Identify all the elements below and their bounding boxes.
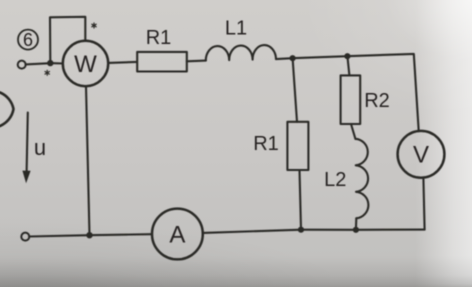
wire W to R1 — [108, 62, 137, 63]
wire node to wattmeter — [53, 62, 63, 64]
svg-text:L2: L2 — [324, 169, 346, 191]
voltage-coil loop of wattmeter — [50, 17, 85, 61]
wire node B down to R2 — [347, 56, 349, 75]
wire node D to bottom right corner — [356, 229, 425, 231]
wire ammeter to node C — [203, 230, 301, 233]
node D (bottom of R2-L2 branch) — [353, 227, 359, 233]
ammeter A — [152, 209, 203, 260]
svg-text:u: u — [34, 135, 46, 160]
wire node C to node D — [301, 229, 356, 231]
resistor R2 — [341, 75, 390, 124]
svg-text:R1: R1 — [253, 133, 279, 155]
voltmeter V — [398, 131, 445, 178]
node E (bottom of wattmeter branch) — [86, 232, 92, 238]
terminal (top input) — [18, 61, 26, 69]
wire node E to ammeter — [90, 234, 153, 235]
wire wattmeter current path down to node E — [86, 86, 90, 235]
wire bottom terminal to node E — [29, 235, 89, 236]
resistor R1 (middle branch) — [253, 122, 308, 170]
svg-text:W: W — [74, 51, 97, 78]
svg-text:R2: R2 — [364, 90, 390, 112]
polarity mark at node — [45, 70, 49, 75]
wire node A to node B — [293, 56, 348, 58]
wire terminal to node — [26, 63, 49, 64]
node B (top of R2 branch) — [344, 53, 350, 59]
svg-text:6: 6 — [23, 30, 33, 50]
svg-text:A: A — [169, 222, 185, 249]
voltage arrow u — [22, 113, 46, 184]
resistor R1 (series) — [137, 27, 187, 72]
wire node A down to resistor R1 (middle branch) — [293, 58, 297, 122]
inductor L1 — [206, 18, 276, 61]
wire L1 to node A — [276, 57, 293, 60]
svg-text:V: V — [413, 142, 429, 169]
polarity mark at wattmeter voltage terminal — [92, 23, 96, 28]
wire node B to top right corner and down to voltmeter — [347, 54, 418, 131]
node (junction at W input) — [47, 60, 53, 66]
figure number 6 (circled) — [18, 30, 38, 51]
wire R2 to L2 — [351, 124, 355, 139]
inductor L2 — [324, 139, 368, 219]
wire L2 to node D — [355, 218, 357, 230]
node A (top of middle branch) — [290, 55, 296, 61]
wire voltmeter to bottom right corner — [423, 178, 424, 230]
node C (bottom of middle branch) — [298, 227, 304, 233]
wire R1 to L1 — [187, 60, 206, 63]
svg-text:R1: R1 — [146, 27, 172, 49]
svg-text:L1: L1 — [225, 18, 247, 40]
wattmeter W — [63, 41, 108, 86]
wire R1 middle branch to node C — [300, 170, 302, 230]
terminal (bottom input) — [21, 233, 29, 241]
partial meter circle of adjacent figure at left edge — [0, 93, 14, 127]
